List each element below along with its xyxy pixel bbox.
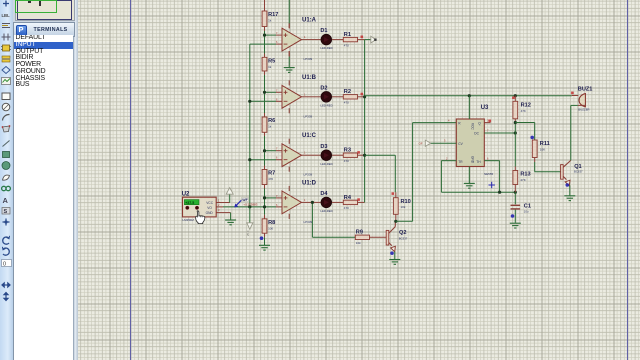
probe dot at Q2 emitter [390,251,394,255]
wire R2 output to buzzer/555 supply rail [365,95,572,97]
wire to output terminal [365,39,371,41]
svg-text:DC: DC [474,132,479,136]
terminals list [13,35,73,360]
toolbar icon: graph [2,78,11,85]
svg-text:LP339: LP339 [304,114,313,118]
probe dot at C1 [511,214,515,218]
svg-text:LBL: LBL [2,13,11,18]
wire CV input [431,142,456,144]
output terminal (row A) [371,36,377,43]
op-amp U1:C [276,139,307,172]
svg-text:GND: GND [206,211,214,215]
svg-text:R13: R13 [520,172,530,178]
toolbar icon: mirror vertical [4,293,8,301]
resistor R13 [513,171,531,185]
wire + input U1:B [265,91,277,93]
svg-text:D2: D2 [320,85,327,91]
toolbar icon: infinity (green) [2,186,11,190]
transistor Q2 [386,221,408,251]
toolbar icon: filled box (green) [3,152,10,158]
LED D1 [320,28,332,50]
ground below U2 GND [225,220,236,225]
wire R8 to ground [264,233,266,237]
svg-text:R2: R2 [344,89,351,95]
svg-text:0: 0 [3,262,6,268]
wire output U1:A to D1 [307,39,321,41]
ground below Q2 [389,260,400,265]
svg-text:LM35DZ: LM35DZ [183,218,195,222]
op-amp U1:A [276,23,307,56]
svg-text:470: 470 [344,159,349,163]
wire R12 top pin [514,96,516,102]
resistor R17 [262,11,278,27]
svg-text:U1:B: U1:B [302,75,317,81]
resistor R7 [262,170,275,185]
toolbar icon: 2D line [3,141,10,147]
svg-text:TH: TH [476,160,481,164]
wire - input U1:B [250,100,276,102]
probe dot at Q1 emitter [566,183,570,187]
transistor Q1 [561,160,583,185]
wire R13 bottom [514,185,516,193]
svg-text:1k: 1k [268,19,272,23]
resistor R11 [532,140,549,158]
toolbar icon: angle edit box [2,260,12,268]
wire Q2 emitter to ground [394,252,396,260]
wire D4 node to R9 [311,202,313,237]
svg-text:LED-RED: LED-RED [320,103,332,107]
resistor R4 [343,195,357,210]
wire node to R11 [515,122,534,124]
wire common comparator output bus [364,40,366,203]
wire output U1:C to D3 [307,154,321,156]
svg-text:+0.375883: +0.375883 [243,203,258,207]
555 Q output stub [484,122,490,124]
svg-text:NE555: NE555 [484,172,494,176]
svg-text:LED-RED: LED-RED [320,209,332,213]
svg-text:1k: 1k [268,125,272,129]
toolbar icon: 2D arc [3,114,10,120]
svg-text:+37.5: +37.5 [185,201,194,205]
wire C1 top [514,192,516,204]
voltage probe WF [234,197,248,207]
resistor R1 [343,32,357,47]
ground below C1 [510,223,521,228]
wire R10 top pin [395,192,397,197]
LED D2 [320,85,332,107]
wire chain R5-R6 [264,71,266,75]
wire C1 bottom to ground [514,210,516,223]
red state dot at R2 [361,93,364,96]
resistor R6 [262,117,275,132]
preview sheet rect [17,0,72,20]
wire sensor rail (inverting inputs) [249,44,251,207]
ground below U1:A [284,68,295,73]
red state dot at buzzer [571,92,574,95]
svg-text:WF: WF [242,198,248,202]
svg-text:OF: OF [419,141,423,145]
toolbar icon: 2D closed path [2,125,11,132]
ground below Q1 [564,196,575,201]
red state dot at R3 [357,151,360,154]
svg-text:LP339: LP339 [304,173,313,177]
preview mini component marks [28,1,31,3]
left icon toolbar [0,0,14,360]
wire R3 to common bus [358,154,365,156]
current probe cross near U3 [489,182,495,188]
svg-text:10k: 10k [401,205,406,209]
svg-text:10k: 10k [356,241,361,245]
wire 555 TH down [484,160,499,162]
svg-text:D3: D3 [320,144,327,150]
resistor R9 [355,230,369,245]
toolbar icon: marker [3,219,10,226]
wire R1 to common bus [358,39,365,41]
wire + input U1:C [265,150,277,152]
probe dot at R8 bottom [260,236,264,240]
toolbar icon: 2D circle [2,103,10,111]
svg-text:U1:A: U1:A [302,18,317,24]
svg-text:LP339: LP339 [304,220,313,224]
toolbar icon: mirror horizontal [2,283,10,287]
wire D2 to R2 [332,96,343,98]
toolbar icon: inter-sheet terminal [3,1,9,7]
wire 555 GND to ground [468,167,470,184]
svg-text:U1:C: U1:C [302,133,317,139]
svg-text:R12: R12 [521,103,531,109]
wire U1:A V- pin to ground [288,51,290,56]
probe dot at R11 top [530,136,534,140]
wire R4 to common bus [358,201,365,203]
wire U2 VCC to power terminal [216,202,230,204]
svg-text:U1:D: U1:D [302,180,317,186]
svg-text:470: 470 [344,101,349,105]
toolbar icon: filled circle (green) [2,162,10,170]
toolbar icon: device pins [2,34,11,41]
toolbar icon: 2D box [2,93,10,100]
wire + input U1:D [265,197,277,199]
svg-text:R5: R5 [268,59,275,65]
TERMINALS header [13,22,75,37]
junction R13/C1 node [514,191,517,194]
toolbar icon: rotate clockwise [3,236,10,244]
toolbar icon: script [2,24,10,28]
svg-text:TR: TR [458,160,463,164]
input terminal below rail [246,207,253,236]
svg-text:1k: 1k [268,65,272,69]
svg-text:Q2: Q2 [399,230,406,236]
wire R17 top pin to +V (off-screen) [264,0,266,11]
svg-text:LP339: LP339 [304,57,313,61]
resistor R5 [262,57,275,71]
preview pane [13,0,74,23]
toolbar icon: symbol [2,208,10,216]
svg-text:R9: R9 [356,230,363,236]
wire U1:A V+ pin up (off-screen) [288,0,290,24]
svg-text:U2: U2 [182,191,190,197]
wire D3 to R3 [332,154,343,156]
sheet border right [627,0,629,360]
svg-text:R1: R1 [344,32,351,38]
svg-text:A: A [3,196,9,205]
svg-text:470: 470 [268,177,273,181]
svg-text:R17: R17 [268,12,278,18]
svg-text:LED-RED: LED-RED [320,46,332,50]
wire U2 GND to ground [216,212,230,214]
resistor R12 [513,101,531,119]
toolbar icon: junction segments (yellow) [2,56,10,62]
resistor R3 [343,148,357,163]
power terminal above U2 [226,188,233,195]
LED D3 [320,144,332,166]
LED D4 [320,191,332,213]
svg-text:25.0: 25.0 [246,230,250,236]
svg-text:BC337: BC337 [399,236,408,240]
ground below R8 [259,245,270,250]
wire U2 VO output [216,206,223,208]
wire + input U1:A [265,34,277,36]
wire - input U1:A [250,43,276,45]
sheet border left [130,0,132,360]
toolbar icon: closed path small [3,175,10,180]
input terminal OF at 555 CV [419,140,431,146]
toolbar icon: terminal diamond [2,67,10,74]
svg-text:LED-RED: LED-RED [320,162,332,166]
capacitor C1 [511,204,531,214]
svg-text:D4: D4 [320,191,328,197]
mouse hand cursor [196,211,205,224]
wire R11 bottom to Q1 base [534,158,536,163]
svg-text:R6: R6 [268,118,275,124]
svg-text:GND: GND [471,156,475,164]
toolbar icon: rotate anticlockwise [2,247,9,255]
wire chain R17-R5 [264,27,266,32]
svg-text:47K: 47K [521,109,526,113]
red state dot at R4 [357,198,360,201]
red state dot at R1 [361,36,364,39]
svg-text:VCC: VCC [471,123,475,130]
svg-text:100: 100 [268,226,273,230]
wire R2 to common bus [358,96,365,98]
svg-text:U3: U3 [481,105,489,111]
svg-text:R4: R4 [344,195,352,201]
svg-text:BC637: BC637 [574,170,583,174]
svg-text:BUZZER: BUZZER [578,108,589,112]
svg-text:470: 470 [344,43,349,47]
ground below U3 [464,183,475,188]
wire R9 to Q2 base [370,236,387,238]
svg-text:R10: R10 [401,199,411,205]
svg-text:VCC: VCC [206,201,213,205]
op-amp U1:B [276,80,307,113]
svg-text:BUZ1: BUZ1 [578,87,593,93]
wire D4 to R4 [332,201,343,203]
wire D1 to R1 [332,39,343,41]
resistor R2 [343,89,357,104]
wire output U1:B to D2 [307,96,321,98]
wire Q2 junction to 555 reset [396,220,413,222]
wire 555 DC to R12/R13 node [484,132,515,134]
svg-text:R8: R8 [268,220,275,226]
wire R12 bottom node [514,119,516,123]
panel/canvas divider [73,0,78,360]
svg-text:R11: R11 [540,141,550,147]
resistor R10 [393,198,410,215]
svg-text:10u: 10u [524,209,529,213]
svg-text:R3: R3 [344,148,351,154]
object selector panel [13,0,77,360]
svg-text:470: 470 [344,206,349,210]
resistor R8 [262,219,275,233]
red state dot at R10 top [392,192,395,195]
svg-text:VO: VO [207,206,212,210]
wire output U1:D to D4 [307,201,321,203]
wire 555 TR loop [441,160,456,162]
svg-text:R7: R7 [268,171,275,177]
sensor U2 (LM35) [182,191,217,221]
wire chain R7-R8 [264,185,266,189]
svg-text:47K: 47K [520,178,525,182]
junction R10/Q2/555 reset [394,220,397,223]
toolbar icon: component (yellow chip) [1,45,11,51]
wire chain R6-R7 [264,132,266,136]
wire 555 VCC to rail [468,96,470,119]
svg-text:10K: 10K [540,148,545,152]
svg-text:D1: D1 [320,28,327,34]
IC U3 NE555 [456,119,484,167]
wire R10 bottom to Q2 collector junction [395,214,397,221]
wire R3 output to R10 [365,154,396,156]
wire - input U1:C [250,159,276,161]
svg-text:S: S [4,209,8,215]
wire Q1 emitter to ground [569,185,571,195]
buzzer BUZ1 [572,87,593,112]
preview viewport rect (green) [15,0,57,13]
wire Q1 collector up to buzzer [570,105,572,160]
op-amp U1:D [276,186,307,219]
